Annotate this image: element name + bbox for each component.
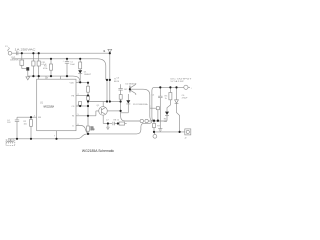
earth ground main xyxy=(6,139,13,144)
wire IC pin RI xyxy=(76,115,96,117)
ground primary xyxy=(26,77,30,80)
wire IC left pin xyxy=(17,116,37,118)
svg-text:Q1: Q1 xyxy=(97,105,101,107)
capacitor C5 xyxy=(158,87,162,128)
wire rect out down xyxy=(150,105,157,108)
diode D1 xyxy=(79,69,81,71)
svg-text:FB: FB xyxy=(72,95,75,97)
connector J1 input jack xyxy=(8,51,12,55)
svg-text:7: 7 xyxy=(54,135,56,137)
wire IC pin D with curve xyxy=(76,126,90,134)
resistor R2 xyxy=(30,117,32,119)
svg-text:R8 1k: R8 1k xyxy=(114,120,120,122)
fuse ticks on L bus xyxy=(16,51,18,55)
resistor R10 on pin bus xyxy=(87,83,89,87)
wire N bus xyxy=(12,59,106,80)
svg-text:EN: EN xyxy=(38,117,41,119)
svg-text:WGC2185A: WGC2185A xyxy=(44,104,55,108)
resistor R9 snubber xyxy=(119,95,122,100)
node TP triangle xyxy=(108,49,112,52)
svg-text:681: 681 xyxy=(164,121,168,123)
svg-text:10k: 10k xyxy=(24,123,28,125)
wire secondary gnd link xyxy=(148,120,167,122)
wire output bus drop xyxy=(152,87,154,120)
wire Q1 collector xyxy=(107,110,120,112)
resistor R11 on pin bus xyxy=(87,92,89,96)
wire IC pin FB xyxy=(76,95,88,97)
svg-text:EE16: EE16 xyxy=(114,81,120,83)
capacitor C4 xyxy=(15,117,19,139)
wire bottom right xyxy=(154,131,185,133)
capacitor C3 snubber xyxy=(118,84,122,94)
wire IC top pin stubs xyxy=(39,76,61,79)
fuse F1 xyxy=(8,47,10,51)
svg-text:1R0: 1R0 xyxy=(91,129,96,131)
diode D5 xyxy=(176,87,178,99)
LED D4 xyxy=(165,112,169,115)
wire bottom gnd bus xyxy=(8,122,152,139)
zener ZD1 xyxy=(127,94,129,100)
connector J3 out plus xyxy=(184,85,188,89)
bridge rectifier BR1 xyxy=(26,67,29,70)
svg-text:J2: J2 xyxy=(184,138,187,140)
connector CON2 pins xyxy=(140,119,143,122)
svg-text:U1: U1 xyxy=(40,102,44,104)
transistor Q1 xyxy=(99,107,108,116)
svg-text:C5: C5 xyxy=(152,94,155,96)
resistor R8 xyxy=(114,123,119,125)
capacitor CX2 xyxy=(38,53,40,61)
svg-text:470k: 470k xyxy=(43,68,48,70)
wire RC net xyxy=(103,123,112,125)
svg-text:10D471K: 10D471K xyxy=(10,60,19,62)
diode D2 output rectifier xyxy=(129,86,131,93)
wire DC rail xyxy=(28,76,80,82)
svg-text:ZD1 P6KE200A: ZD1 P6KE200A xyxy=(133,103,148,106)
wire snubber to connector xyxy=(121,116,140,121)
svg-text:CS: CS xyxy=(72,106,75,108)
svg-text:D: D xyxy=(73,125,75,127)
capacitor CX1 xyxy=(32,53,34,61)
wire Q1 top xyxy=(102,102,104,107)
svg-text:103: 103 xyxy=(7,122,11,124)
wire IC pin VDD xyxy=(76,82,88,84)
wire Q1 emitter xyxy=(102,115,104,123)
transformer T1 primary xyxy=(106,80,108,102)
wire vertical from L bus to transformer xyxy=(109,53,111,80)
resistor R4 fusible xyxy=(79,59,81,62)
varistor RV1 xyxy=(21,53,23,60)
svg-text:RI: RI xyxy=(72,116,74,118)
wire IC gnd stub xyxy=(56,131,58,139)
svg-text:+: + xyxy=(63,60,65,62)
junction dots xyxy=(21,52,23,54)
svg-text:C3: C3 xyxy=(117,77,120,79)
svg-text:102: 102 xyxy=(124,89,128,91)
svg-text:1k: 1k xyxy=(165,98,168,100)
resistor R13 xyxy=(88,101,107,103)
resistor R5 xyxy=(169,87,171,92)
connector TP2 xyxy=(153,134,157,138)
svg-text:VDD: VDD xyxy=(70,83,75,85)
resistor R14 xyxy=(156,107,159,110)
connector J2 out minus xyxy=(185,129,191,135)
ground g3 xyxy=(158,129,162,132)
svg-text:WG2185A Schematic: WG2185A Schematic xyxy=(82,149,115,153)
resistor R1 xyxy=(50,59,52,64)
capacitor C1 electrolytic xyxy=(65,59,69,76)
svg-text:10uF: 10uF xyxy=(70,64,75,66)
svg-text:5V 1A 2.5W: 5V 1A 2.5W xyxy=(171,80,184,83)
wire secondary to output xyxy=(130,89,153,121)
svg-text:D2 SB360: D2 SB360 xyxy=(126,83,136,85)
wire Q1 base xyxy=(96,111,99,116)
svg-text:a: a xyxy=(104,51,106,53)
wire L bus xyxy=(12,52,110,54)
wire output plus xyxy=(154,86,184,88)
svg-text:+: + xyxy=(191,87,193,89)
ground g2 xyxy=(106,124,109,130)
wire transformer bottom to snubber xyxy=(110,101,121,103)
svg-text:F1: F1 xyxy=(5,46,8,48)
wire IC pin CS xyxy=(76,105,88,107)
svg-text:C7: C7 xyxy=(106,120,109,122)
resistor R7 xyxy=(153,121,155,124)
IC U1 xyxy=(37,79,76,131)
svg-text:1N4007: 1N4007 xyxy=(84,74,92,76)
svg-text:1A 250VAC: 1A 250VAC xyxy=(15,49,37,52)
capacitor C7 xyxy=(113,122,115,125)
svg-text:470uF: 470uF xyxy=(182,98,189,100)
resistor R12 sense xyxy=(87,116,89,126)
transformer T1 secondary xyxy=(109,80,111,102)
